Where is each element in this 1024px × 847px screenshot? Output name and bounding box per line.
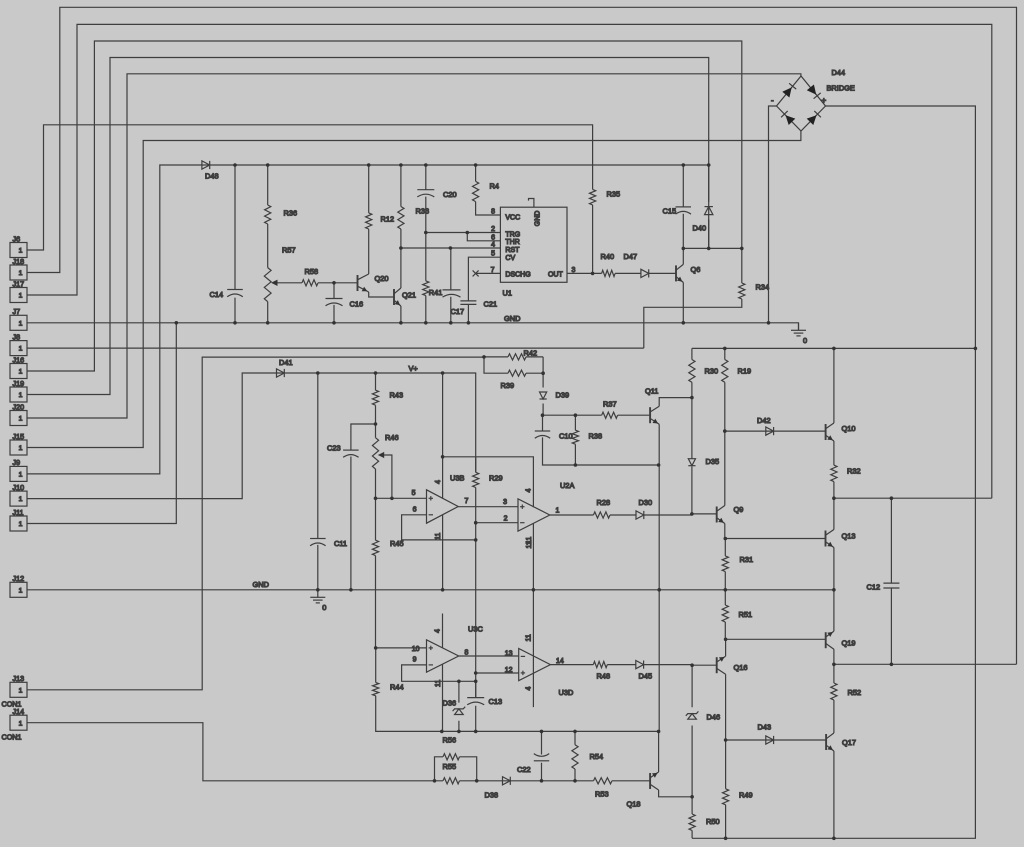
junction (833.9,664.3) xyxy=(832,663,836,667)
resistor R19 xyxy=(722,360,751,383)
wire D46 branch xyxy=(691,665,693,797)
junction (235.0,165) xyxy=(233,163,237,167)
svg-text:D35: D35 xyxy=(706,457,720,466)
resistor R38 xyxy=(572,430,602,444)
connector J9 xyxy=(10,458,27,481)
resistor R43 xyxy=(372,390,403,405)
svg-text:14: 14 xyxy=(556,658,564,665)
resistor R54 xyxy=(572,745,603,769)
resistor R52 xyxy=(831,683,861,700)
svg-text:1: 1 xyxy=(19,496,23,503)
svg-text:R53: R53 xyxy=(595,789,609,798)
U2A pin numbers xyxy=(503,489,559,549)
ground 0 (signal) xyxy=(310,590,326,612)
junction (891.4,498.2) xyxy=(890,496,894,500)
resistor R29 xyxy=(473,472,503,487)
wire D43 line xyxy=(726,739,827,741)
svg-text:D48: D48 xyxy=(205,172,219,181)
svg-text:6: 6 xyxy=(413,507,417,514)
capacitor C20 xyxy=(417,190,456,199)
svg-text:Q18: Q18 xyxy=(627,800,641,809)
svg-text:THR: THR xyxy=(505,239,519,246)
junction (267.7,322.8) xyxy=(266,321,270,325)
diode D30 xyxy=(636,498,652,519)
svg-text:D45: D45 xyxy=(639,672,653,681)
wire Q6 emitter xyxy=(682,282,684,322)
svg-text:1: 1 xyxy=(19,687,23,694)
label D44 xyxy=(832,68,846,77)
wire Q10 emitter to R32 xyxy=(833,441,835,498)
wire J9 net / oscillator rail xyxy=(27,165,709,474)
svg-text:R35: R35 xyxy=(607,190,621,199)
svg-text:8: 8 xyxy=(465,650,469,657)
connector J14 xyxy=(2,707,28,741)
svg-text:0: 0 xyxy=(322,603,326,612)
diode D46 xyxy=(686,711,720,721)
wire C16 branch xyxy=(333,283,335,323)
resistor R44 xyxy=(373,683,404,696)
op-amp U3C xyxy=(427,625,484,673)
wire RST pin4 xyxy=(401,247,501,249)
junction (475.7,731.4) xyxy=(474,730,478,734)
wire DSCHG pin7 xyxy=(476,272,501,274)
svg-text:J19: J19 xyxy=(13,379,25,388)
connector J19 xyxy=(10,379,27,402)
svg-text:0: 0 xyxy=(803,336,807,345)
junction (334,282.8) xyxy=(332,281,336,285)
svg-text:4: 4 xyxy=(526,687,533,691)
wire Q19 emitter xyxy=(833,590,835,631)
junction (400.9,248) xyxy=(399,246,403,250)
svg-text:R32: R32 xyxy=(847,467,861,476)
junction (375.7,647.9) xyxy=(374,646,378,650)
wire J14 net to R55 line xyxy=(27,723,650,781)
label R56 xyxy=(443,736,457,745)
resistor R55 (top of pair) xyxy=(443,754,460,760)
resistor R30 xyxy=(689,360,718,383)
resistor R35 xyxy=(590,189,621,205)
svg-text:D47: D47 xyxy=(624,252,638,261)
svg-text:R37: R37 xyxy=(603,400,617,409)
junction (334,322.8) xyxy=(332,321,336,325)
wire C20-R41 branch xyxy=(425,165,427,323)
wire R36-R57 branch xyxy=(267,165,269,323)
wire Q19 base line xyxy=(726,638,826,640)
transistor Q19 xyxy=(826,631,856,649)
wire Q9 emitter xyxy=(724,524,726,539)
wire U2A pin2 xyxy=(476,522,518,524)
U3C pin numbers xyxy=(412,629,469,687)
svg-text:R33: R33 xyxy=(416,207,430,216)
capacitor C22 xyxy=(517,754,549,774)
svg-text:U3C: U3C xyxy=(468,625,483,634)
svg-text:J7: J7 xyxy=(13,307,21,316)
junction (350.9,589.8) xyxy=(349,588,353,592)
svg-text:1: 1 xyxy=(19,445,23,452)
svg-text:6: 6 xyxy=(491,234,495,241)
timer U1 labels xyxy=(503,211,564,298)
wire R44 to R56 line xyxy=(376,648,659,732)
svg-text:R44: R44 xyxy=(390,683,404,692)
svg-text:C22: C22 xyxy=(517,765,531,774)
junction (592.6,273.4) xyxy=(591,272,595,276)
svg-text:CV: CV xyxy=(505,255,515,262)
junction (891.4,664.3) xyxy=(890,663,894,667)
wire R30-D35 branch xyxy=(691,348,693,514)
svg-text:D30: D30 xyxy=(639,498,653,507)
junction (425.8,165) xyxy=(424,163,428,167)
svg-text:11: 11 xyxy=(526,537,533,544)
svg-text:U3B: U3B xyxy=(450,474,464,483)
wire collector node xyxy=(683,247,742,249)
junction (391.9,498.3) xyxy=(390,497,394,501)
junction (176.3,322.8) xyxy=(175,321,179,325)
resistor R50 xyxy=(689,814,720,831)
connector J10 xyxy=(10,483,27,506)
junction (725.6,838.3) xyxy=(724,837,728,841)
diode D39 xyxy=(540,391,570,400)
junction (724.8,431.1) xyxy=(723,429,727,433)
wire C15 branch xyxy=(682,165,684,248)
wire Q20 emitter to Q21 base xyxy=(369,292,394,297)
svg-text:1: 1 xyxy=(19,270,23,277)
svg-text:C14: C14 xyxy=(210,290,224,299)
svg-text:4: 4 xyxy=(491,242,495,249)
svg-text:R42: R42 xyxy=(524,349,538,358)
wire J20 net xyxy=(27,74,801,418)
svg-text:J14: J14 xyxy=(13,707,25,716)
svg-text:R51: R51 xyxy=(739,610,753,619)
wire J16 net xyxy=(27,41,742,371)
svg-text:D38: D38 xyxy=(485,791,499,800)
connector J8 xyxy=(10,332,27,355)
junction (708.7,248.4) xyxy=(707,247,711,251)
junction (450.8,322.8) xyxy=(449,321,453,325)
diode D35 xyxy=(688,457,719,466)
connector J15 xyxy=(10,432,27,455)
junction (475.7,673) xyxy=(474,671,478,675)
svg-text:8: 8 xyxy=(491,209,495,216)
wire U2A-U3D power xyxy=(532,523,534,707)
svg-text:Q20: Q20 xyxy=(375,274,389,283)
junction (468.4,322.8) xyxy=(467,321,471,325)
resistor R12 xyxy=(366,213,394,229)
transistor Q9 xyxy=(717,505,744,524)
junction (368.7,165) xyxy=(367,163,371,167)
wire CV pin5 to C21 xyxy=(468,257,500,323)
diode D41 xyxy=(277,358,293,377)
transistor Q10 xyxy=(826,423,856,441)
svg-text:11: 11 xyxy=(526,634,533,641)
label GND (J12 net) xyxy=(253,580,269,589)
wire U2A output xyxy=(550,514,692,516)
svg-text:3: 3 xyxy=(572,267,576,274)
svg-text:J9: J9 xyxy=(13,458,21,467)
junction (542.5,415.2) xyxy=(541,413,545,417)
svg-text:+: + xyxy=(822,96,827,105)
svg-text:R46: R46 xyxy=(385,433,399,442)
svg-text:J15: J15 xyxy=(13,432,25,441)
zener D36 xyxy=(443,698,466,714)
diode D45 xyxy=(636,661,652,681)
wire R54 branch xyxy=(574,731,576,780)
wire C22 branch xyxy=(541,731,543,780)
svg-text:R34: R34 xyxy=(756,283,770,292)
capacitor C11 xyxy=(310,539,347,549)
diode D42 xyxy=(757,416,774,435)
junction (475.6,165) xyxy=(474,163,478,167)
capacitor C17 xyxy=(443,290,465,316)
wire Q9 base line xyxy=(692,513,717,515)
junction (533.4,589.8) xyxy=(532,588,536,592)
svg-text:Q19: Q19 xyxy=(842,639,856,648)
junction (375.5,498.3) xyxy=(374,497,378,501)
junction (375.5,373) xyxy=(374,371,378,375)
wire R45 branch xyxy=(375,498,377,648)
junction (833.9,589.8) xyxy=(832,588,836,592)
wire R29 branch xyxy=(475,457,477,473)
svg-text:Q10: Q10 xyxy=(842,424,856,433)
svg-text:J13: J13 xyxy=(13,674,25,683)
ground 0 (main) xyxy=(791,323,807,345)
svg-text:R12: R12 xyxy=(381,215,395,224)
svg-text:VCC: VCC xyxy=(505,215,520,222)
svg-text:Q17: Q17 xyxy=(842,738,856,747)
wire U3B minus feedback xyxy=(402,515,476,540)
junction (575.4,415.2) xyxy=(574,413,578,417)
junction (317.8,589.8) xyxy=(316,588,320,592)
transistor Q17 xyxy=(826,733,856,751)
connector J6 xyxy=(10,234,27,257)
svg-text:R30: R30 xyxy=(705,367,719,376)
junction (475.7,539.9) xyxy=(474,538,478,542)
svg-text:J11: J11 xyxy=(13,508,24,517)
connector J17 xyxy=(10,279,27,302)
U3B pin numbers xyxy=(412,480,469,540)
wire D36 branch xyxy=(458,681,460,731)
svg-text:5: 5 xyxy=(412,490,416,497)
svg-text:CON1: CON1 xyxy=(2,732,22,741)
svg-text:R49: R49 xyxy=(739,791,753,800)
no-connect X on pin7 xyxy=(473,270,479,276)
resistor R31 xyxy=(722,555,753,572)
svg-text:J18: J18 xyxy=(13,257,25,266)
op-amp U3D xyxy=(519,649,574,698)
junction (267.7,165) xyxy=(266,163,270,167)
svg-text:1: 1 xyxy=(19,369,23,376)
svg-text:C10: C10 xyxy=(559,432,573,441)
junction (833.9,348.4) xyxy=(832,347,836,351)
svg-text:C12: C12 xyxy=(867,582,881,591)
svg-text:4: 4 xyxy=(435,629,442,633)
svg-text:D44: D44 xyxy=(832,68,846,77)
wire J11 net to GND xyxy=(27,323,176,524)
wire Q16 emitter up xyxy=(725,639,727,656)
resistor R32 xyxy=(831,465,861,482)
junction (692.1,796.8) xyxy=(690,795,694,799)
wire U3D output xyxy=(550,664,692,666)
svg-text:12: 12 xyxy=(505,667,513,674)
junction (450.4,248) xyxy=(449,246,453,250)
diode D47 xyxy=(624,252,649,278)
junction (683.3,165) xyxy=(682,163,686,167)
svg-text:C13: C13 xyxy=(489,697,503,706)
transistor Q18 xyxy=(627,772,659,809)
wire C14 branch xyxy=(234,165,236,323)
wire Q10 collector xyxy=(833,348,835,423)
svg-text:R55: R55 xyxy=(443,762,457,771)
svg-text:R54: R54 xyxy=(590,752,604,761)
wire J7 GND rail xyxy=(27,323,799,331)
op-amp U2A xyxy=(518,481,574,531)
op-amp U3B xyxy=(427,474,465,524)
resistor R58 xyxy=(302,267,318,286)
connector J13 xyxy=(2,674,28,708)
svg-text:R28: R28 xyxy=(597,498,611,507)
svg-text:D46: D46 xyxy=(707,713,721,722)
connector J20 xyxy=(10,402,27,425)
capacitor C16 xyxy=(326,299,364,309)
svg-text:R38: R38 xyxy=(589,432,603,441)
junction (683.3,248.4) xyxy=(682,247,686,251)
wire R12 / Q20 collector xyxy=(368,165,370,274)
resistor R46 xyxy=(372,433,398,469)
wire J18 net xyxy=(27,7,1017,664)
svg-text:U2A: U2A xyxy=(560,481,574,490)
resistor R53 xyxy=(594,778,613,799)
junction (833.9,498.2) xyxy=(832,496,836,500)
capacitor C15 xyxy=(663,207,692,216)
label GND net xyxy=(504,314,520,323)
wire J15 net xyxy=(27,131,801,448)
svg-text:4: 4 xyxy=(435,480,442,484)
svg-text:Q13: Q13 xyxy=(842,532,856,541)
svg-text:RST: RST xyxy=(505,247,520,254)
svg-text:R45: R45 xyxy=(390,539,404,548)
wire C12 branch xyxy=(890,498,892,664)
resistor R41 xyxy=(423,281,443,297)
junction (725.6,639.3) xyxy=(724,638,728,642)
junction (235.0,322.8) xyxy=(233,321,237,325)
svg-text:TRG: TRG xyxy=(505,231,520,238)
wire R58 to Q20 base xyxy=(318,282,358,284)
bridge rectifier D44 xyxy=(771,76,827,131)
svg-text:BRIDGE: BRIDGE xyxy=(827,84,855,93)
resistor R57 xyxy=(264,246,295,302)
svg-text:R56: R56 xyxy=(443,736,457,745)
wire U3C power xyxy=(442,614,444,731)
wire V+ branch to U2A pin4 xyxy=(443,457,534,508)
wire Q11 emitter long vertical xyxy=(658,424,660,731)
label V+ xyxy=(409,364,418,373)
wire R42-R39 link xyxy=(484,357,543,415)
wire R52 branch xyxy=(833,664,835,733)
svg-text:Q16: Q16 xyxy=(734,663,748,672)
svg-text:C17: C17 xyxy=(451,307,465,316)
junction (467.3,232.5) xyxy=(466,231,470,235)
svg-text:C11: C11 xyxy=(334,539,347,548)
wire J8 net to R34 feed xyxy=(27,347,644,349)
wire U3C minus feedback xyxy=(402,665,476,681)
svg-text:11: 11 xyxy=(435,533,442,540)
wire R4 to pin8 xyxy=(476,165,501,215)
svg-text:R52: R52 xyxy=(848,688,862,697)
resistor R51 xyxy=(722,605,752,622)
wire J19 net xyxy=(27,58,709,395)
wire Q13 base line xyxy=(725,538,825,540)
svg-text:1: 1 xyxy=(19,346,23,353)
svg-text:C23: C23 xyxy=(327,444,341,453)
wire J17 net xyxy=(27,24,992,498)
svg-text:C15: C15 xyxy=(663,207,677,216)
wire OUT pin3 to Q6 base xyxy=(567,272,676,274)
wire Q17 emitter xyxy=(833,751,835,838)
wire Q19 collector xyxy=(833,649,835,664)
svg-text:13: 13 xyxy=(505,651,513,658)
junction (708.7,165) xyxy=(707,163,711,167)
wire Q16 collector down xyxy=(725,674,727,740)
diode D48 xyxy=(202,161,219,181)
svg-text:Q11: Q11 xyxy=(645,387,658,396)
resistor R39 xyxy=(501,370,527,390)
junction (442.6,589.8) xyxy=(441,588,445,592)
wire J6 net to R35 xyxy=(27,125,593,274)
wire U3C plus input xyxy=(376,647,427,649)
junction (375.5,424) xyxy=(374,422,378,426)
wire U3D pin12 xyxy=(476,672,519,674)
svg-text:GND: GND xyxy=(504,314,520,323)
wire J10 net / V+ line xyxy=(27,373,476,731)
svg-text:1: 1 xyxy=(19,392,23,399)
junction (975.4,348.4) xyxy=(974,347,978,351)
wire J13 net to R42 xyxy=(27,357,484,690)
junction (317.8,373) xyxy=(316,371,320,375)
transistor Q13 xyxy=(826,530,856,548)
svg-text:J17: J17 xyxy=(13,279,25,288)
svg-text:3: 3 xyxy=(503,499,507,506)
wire D40 branch xyxy=(708,165,710,248)
transistor Q20 xyxy=(358,274,389,292)
resistor R36 xyxy=(265,205,297,224)
junction (833.9,838.3) xyxy=(832,837,836,841)
wire J12 GND line xyxy=(27,589,834,591)
capacitor C14 xyxy=(210,290,243,300)
wire C17 branch xyxy=(450,248,452,323)
wire R34 branch xyxy=(644,248,742,348)
svg-text:1: 1 xyxy=(19,293,23,300)
junction (575.4,465) xyxy=(574,463,578,467)
junction (434.5,780.8) xyxy=(433,779,437,783)
junction (442.6,456.8) xyxy=(441,455,445,459)
junction (725.6,740) xyxy=(724,738,728,742)
label BRIDGE xyxy=(827,84,855,93)
transistor Q16 xyxy=(717,656,748,674)
svg-text:C20: C20 xyxy=(443,190,457,199)
wire R19-Q9 collector xyxy=(724,348,726,505)
resistor R28 xyxy=(593,498,610,518)
wire TRG pin2 xyxy=(426,232,501,234)
wire U3B plus input xyxy=(376,497,427,499)
wire Q18 emitter up xyxy=(658,731,660,772)
wire output V rail xyxy=(692,347,976,349)
junction (441.8,731.4) xyxy=(440,730,444,734)
wire output top line xyxy=(834,497,992,499)
svg-text:1: 1 xyxy=(19,587,23,594)
junction (658.6,465) xyxy=(657,463,661,467)
svg-text:R31: R31 xyxy=(740,555,754,564)
capacitor C23 xyxy=(327,444,359,458)
wire output mid line xyxy=(834,663,1017,665)
